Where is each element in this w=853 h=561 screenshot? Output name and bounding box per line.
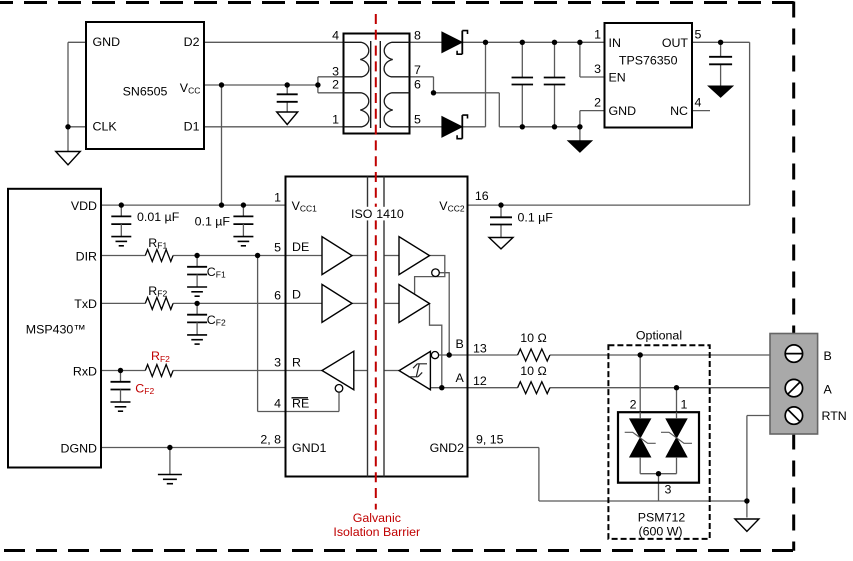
svg-text:10 Ω: 10 Ω [520, 331, 547, 345]
svg-text:GND: GND [93, 35, 121, 49]
svg-text:GND2: GND2 [430, 441, 465, 455]
svg-text:B: B [824, 349, 832, 363]
svg-text:12: 12 [473, 374, 487, 388]
svg-text:0.1 µF: 0.1 µF [195, 215, 231, 229]
svg-text:13: 13 [473, 342, 487, 356]
svg-text:EN: EN [609, 71, 626, 85]
svg-text:3: 3 [274, 356, 281, 370]
svg-text:Isolation Barrier: Isolation Barrier [333, 525, 420, 539]
svg-text:D: D [292, 288, 301, 302]
svg-text:9, 15: 9, 15 [476, 433, 504, 447]
svg-text:5: 5 [695, 27, 702, 41]
svg-text:4: 4 [332, 28, 339, 42]
svg-text:D2: D2 [184, 35, 200, 49]
svg-text:B: B [456, 337, 464, 351]
svg-text:TPS76350: TPS76350 [619, 54, 678, 68]
svg-text:RTN: RTN [822, 409, 847, 423]
svg-text:MSP430™: MSP430™ [26, 322, 86, 336]
svg-text:PSM712: PSM712 [638, 511, 686, 525]
svg-text:5: 5 [274, 241, 281, 255]
svg-text:1: 1 [594, 27, 601, 41]
svg-text:VDD: VDD [71, 199, 97, 213]
svg-text:4: 4 [274, 397, 281, 411]
svg-text:A: A [456, 371, 465, 385]
svg-text:6: 6 [414, 77, 421, 91]
svg-text:1: 1 [332, 112, 339, 126]
svg-text:Galvanic: Galvanic [353, 511, 401, 525]
svg-text:RxD: RxD [73, 364, 97, 378]
svg-text:ISO: ISO [351, 207, 373, 221]
svg-text:5: 5 [414, 112, 421, 126]
svg-text:DE: DE [292, 240, 309, 254]
svg-text:1: 1 [681, 397, 688, 411]
svg-text:6: 6 [274, 288, 281, 302]
svg-text:RE: RE [292, 397, 309, 411]
svg-text:IN: IN [609, 36, 621, 50]
svg-text:0.1 µF: 0.1 µF [518, 211, 554, 225]
svg-text:DGND: DGND [61, 441, 98, 455]
svg-text:DIR: DIR [76, 249, 97, 263]
svg-text:GND1: GND1 [292, 441, 327, 455]
svg-text:3: 3 [665, 483, 672, 497]
svg-text:2: 2 [332, 77, 339, 91]
svg-text:10 Ω: 10 Ω [520, 364, 547, 378]
svg-text:OUT: OUT [662, 36, 689, 50]
svg-text:7: 7 [414, 63, 421, 77]
svg-text:2: 2 [594, 96, 601, 110]
svg-text:2, 8: 2, 8 [260, 433, 281, 447]
svg-text:D1: D1 [184, 119, 200, 133]
svg-text:(600 W): (600 W) [638, 524, 682, 538]
svg-text:8: 8 [414, 28, 421, 42]
svg-text:1410: 1410 [376, 207, 404, 221]
svg-text:A: A [824, 383, 833, 397]
svg-text:CLK: CLK [93, 119, 118, 133]
svg-text:4: 4 [695, 96, 702, 110]
svg-text:SN6505: SN6505 [123, 85, 168, 99]
svg-text:3: 3 [594, 62, 601, 76]
svg-text:GND: GND [609, 104, 637, 118]
svg-text:TxD: TxD [74, 297, 97, 311]
svg-text:R: R [292, 356, 301, 370]
svg-text:1: 1 [274, 190, 281, 204]
svg-text:16: 16 [475, 189, 489, 203]
svg-text:0.01 µF: 0.01 µF [137, 210, 180, 224]
svg-text:NC: NC [670, 104, 688, 118]
svg-text:Optional: Optional [636, 329, 682, 343]
svg-text:2: 2 [630, 397, 637, 411]
svg-text:3: 3 [332, 65, 339, 79]
